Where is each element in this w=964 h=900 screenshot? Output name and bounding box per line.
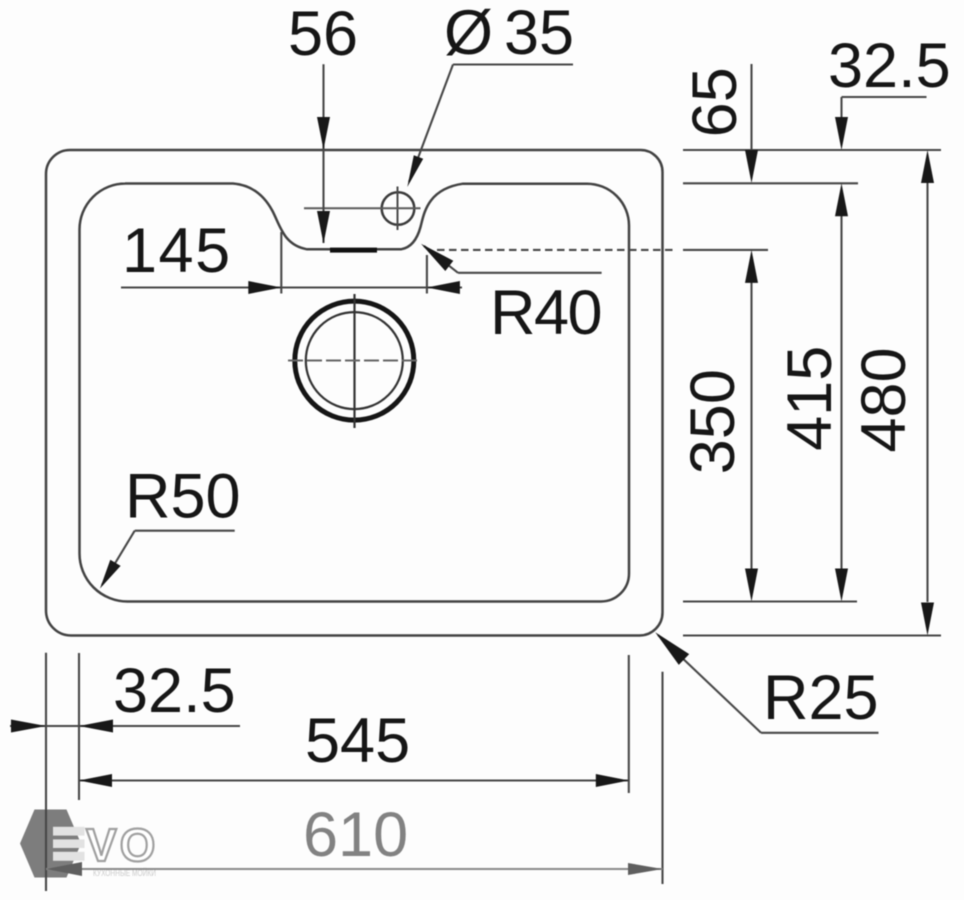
svg-text:Ø: Ø (444, 0, 493, 68)
svg-text:VO: VO (86, 819, 158, 871)
svg-text:610: 610 (303, 800, 408, 870)
svg-text:R40: R40 (490, 278, 601, 348)
svg-text:415: 415 (775, 346, 845, 451)
svg-text:545: 545 (305, 706, 410, 776)
svg-text:35: 35 (504, 0, 574, 68)
svg-text:R50: R50 (125, 462, 241, 532)
svg-text:R25: R25 (763, 663, 879, 733)
svg-text:350: 350 (678, 369, 748, 474)
svg-text:65: 65 (680, 67, 750, 137)
svg-text:145: 145 (122, 216, 232, 286)
svg-text:480: 480 (849, 347, 919, 452)
svg-text:32.5: 32.5 (828, 31, 951, 101)
svg-text:56: 56 (288, 0, 358, 69)
svg-text:32.5: 32.5 (113, 656, 236, 726)
